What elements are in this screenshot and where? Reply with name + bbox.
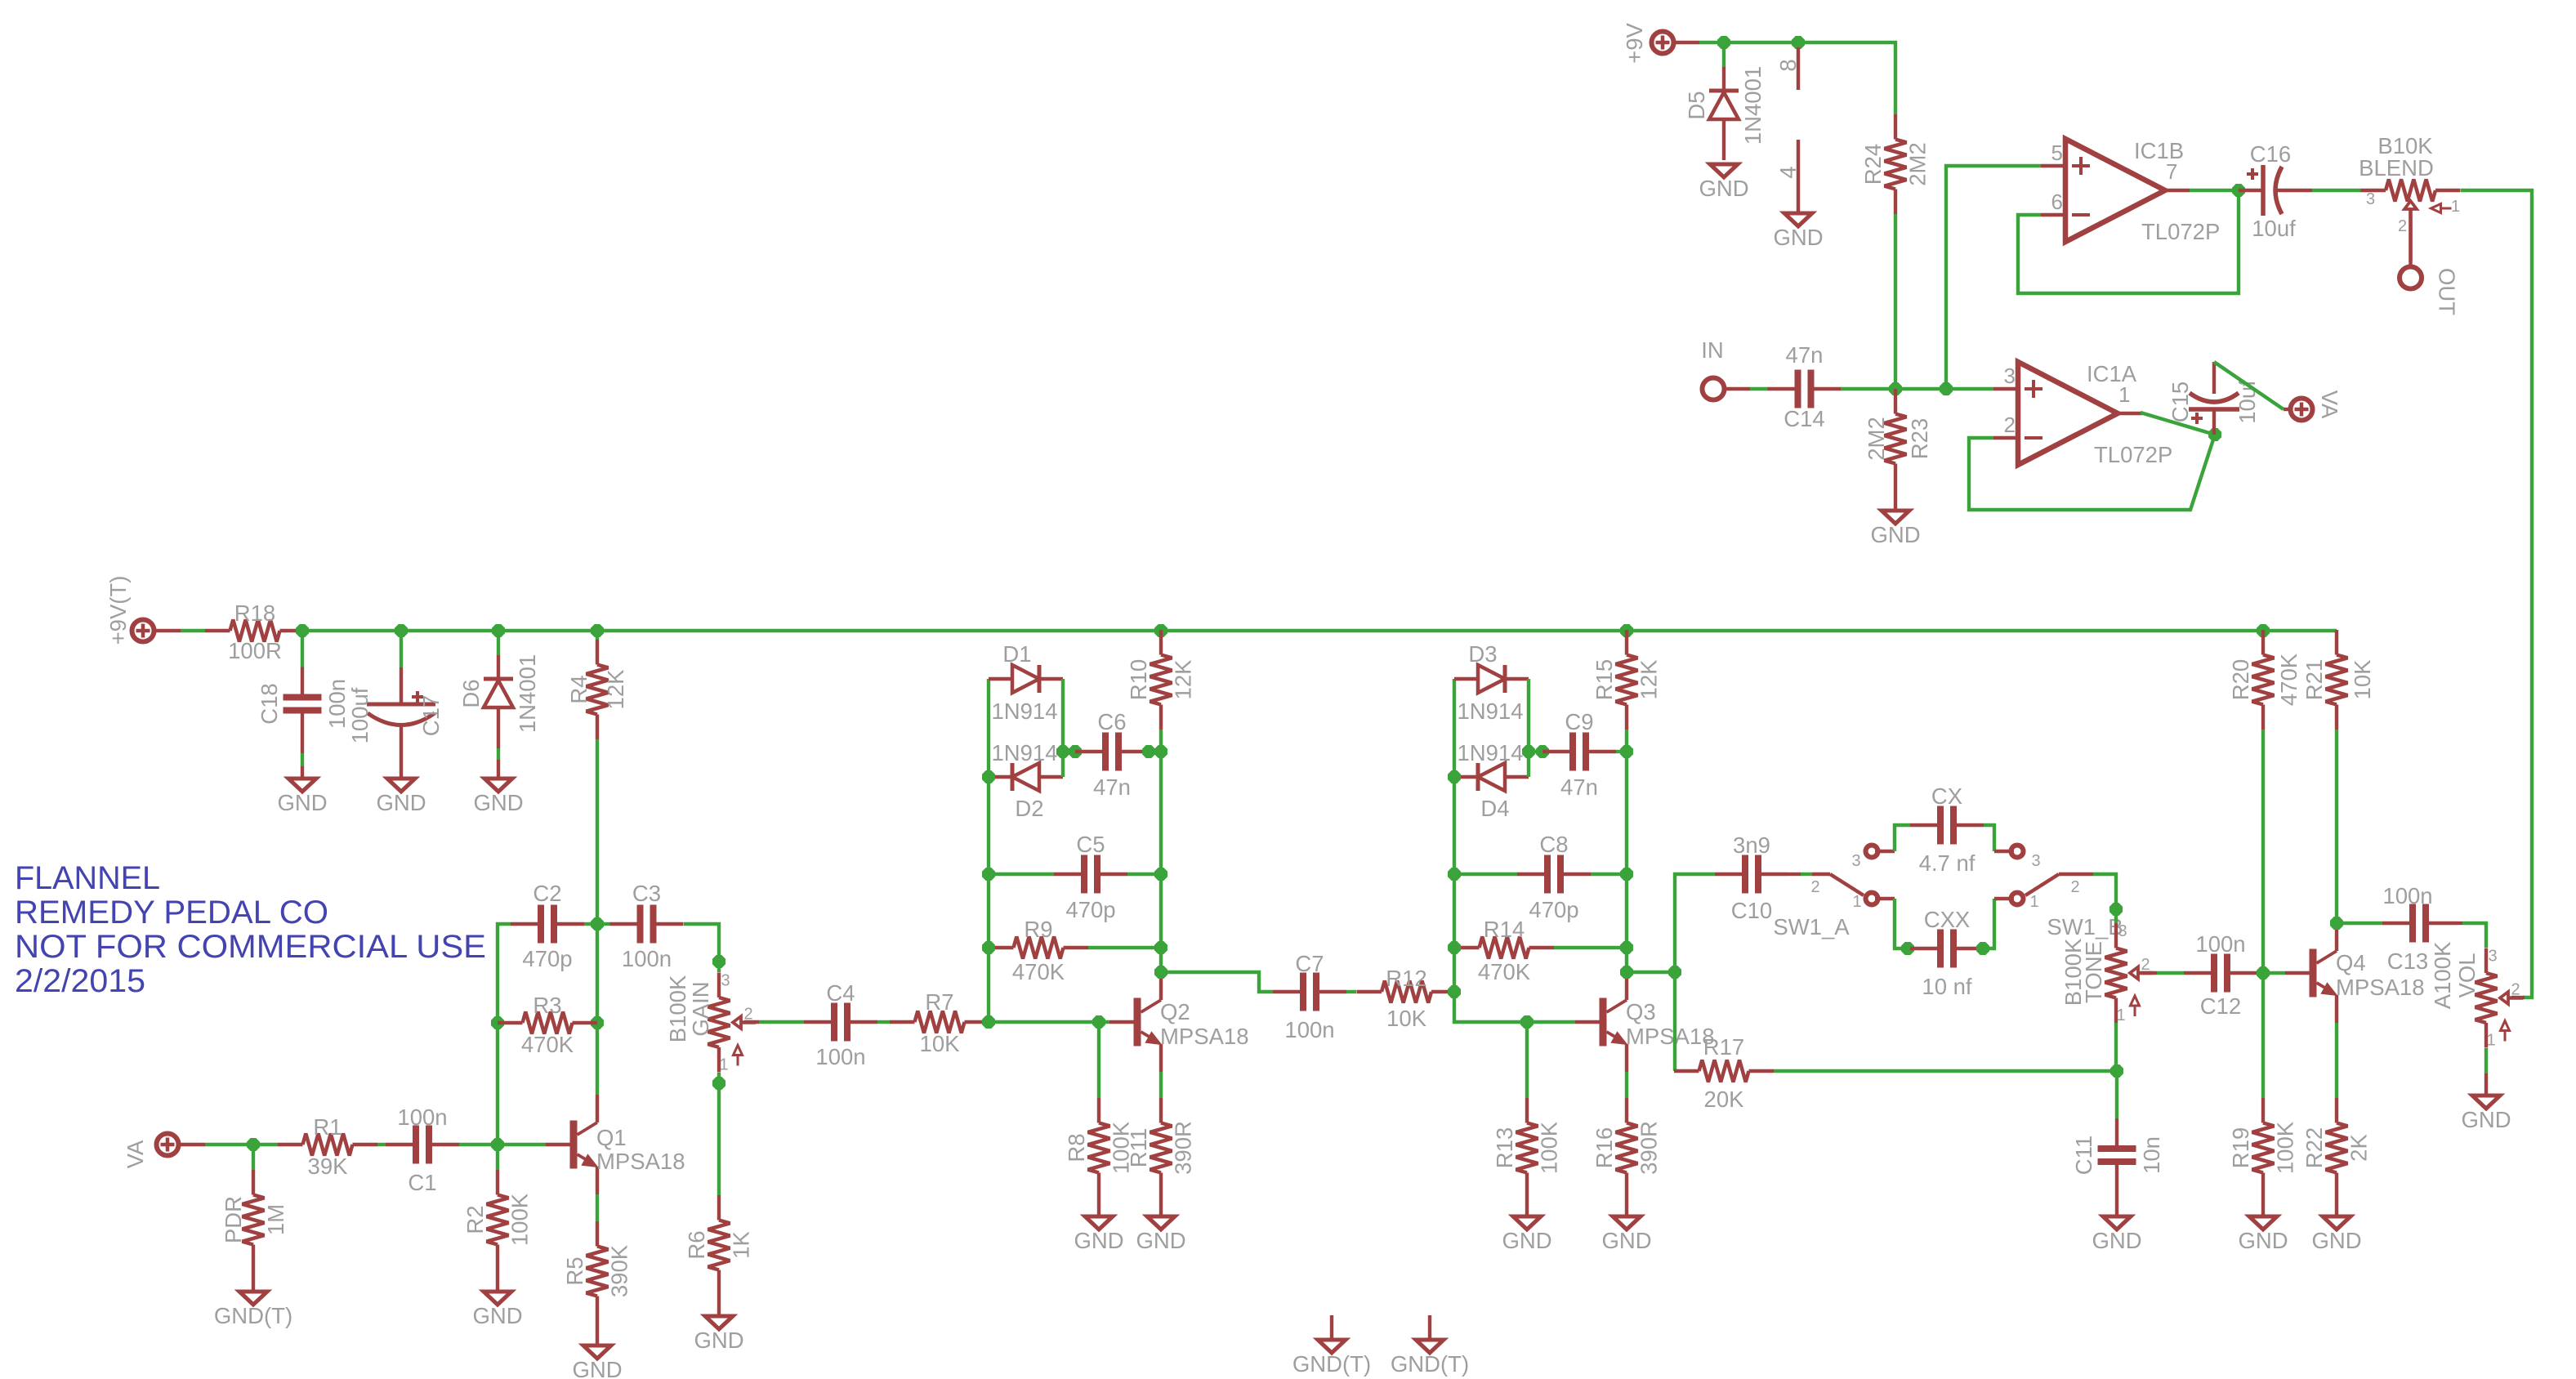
svg-text:C15: C15 [2168,382,2193,422]
title line NOT FOR COMMERCIAL USE [15,929,486,965]
svg-text:1K: 1K [729,1231,754,1259]
wire C3 to GAIN [684,924,719,972]
svg-text:2: 2 [2004,413,2016,437]
wire C15 to VA [2214,362,2288,409]
capacitor CX [1910,783,1984,876]
svg-text:2: 2 [2141,956,2150,974]
diode D2 [989,740,1063,821]
svg-text:D4: D4 [1480,796,1509,821]
ground GND below C11 [2092,1216,2141,1253]
wire R24 to input node [1894,214,1897,389]
junction C6 tap [1057,746,1069,758]
svg-text:R2: R2 [462,1205,488,1234]
wire C8 right [1591,872,1627,876]
capacitor C5 [1054,832,1127,922]
svg-text:100n: 100n [622,946,672,971]
junction C8 left [1449,868,1461,881]
svg-text:R3: R3 [533,993,561,1018]
wire CX to SW1_B pin3 [1984,825,2014,851]
svg-text:REMEDY PEDAL CO: REMEDY PEDAL CO [15,895,328,930]
svg-text:MPSA18: MPSA18 [596,1149,685,1174]
svg-text:470p: 470p [522,946,572,971]
wire C7 to R12 [1346,990,1356,993]
svg-text:3: 3 [2488,948,2497,966]
wire C11 to ground [2115,1192,2118,1216]
ground GND below R8 [1074,1216,1123,1253]
wire D6 to ground [497,760,500,779]
svg-text:GND: GND [1870,522,1920,547]
resistor R13 [1492,1098,1562,1216]
svg-text:R9: R9 [1024,917,1052,942]
svg-text:GND: GND [376,790,426,815]
svg-text:1: 1 [2116,1006,2125,1024]
resistor R22 [2301,1098,2372,1216]
wire TONE wiper to C12 [2141,971,2184,975]
power port +9V(T) [105,576,154,645]
svg-text:R1: R1 [313,1114,342,1140]
svg-text:5: 5 [2051,141,2063,165]
title line date [15,963,145,999]
capacitor C15 [2168,362,2260,435]
resistor R6 [684,1195,754,1316]
capacitor C14 [1768,342,1842,431]
junction C9 tap [1523,746,1535,758]
resistor R15 [1592,630,1662,730]
resistor R24 [1860,114,1931,214]
svg-text:3n9: 3n9 [1733,832,1770,858]
svg-text:1: 1 [2118,382,2130,407]
svg-text:10 nf: 10 nf [1922,974,1972,999]
wire C5 left [989,872,1054,876]
resistor R23 [1864,389,1932,511]
resistor R9 [989,917,1088,984]
wire SW1_B to TONE [2077,874,2116,923]
svg-text:R4: R4 [566,675,592,703]
wire R7 to Q2 base [989,1020,1109,1024]
capacitor C2 [511,881,584,971]
wire SW1_A pin3 to CX [1875,825,1910,851]
resistor R8 [1064,1098,1134,1216]
svg-text:TONE: TONE [2081,941,2106,1003]
svg-text:C7: C7 [1295,951,1324,976]
svg-text:R18: R18 [234,600,275,626]
svg-text:10K: 10K [920,1031,961,1056]
wire VA to R1 [181,1143,278,1146]
wire C18 to ground [301,741,304,779]
transistor Q2 [1109,972,1249,1072]
svg-text:470p: 470p [1529,897,1578,922]
svg-text:D1: D1 [1002,641,1031,667]
wire R8 stub [1097,1022,1100,1098]
port OUT [2400,267,2460,316]
resistor R14 [1454,917,1554,984]
svg-text:1M: 1M [263,1204,288,1235]
wire R9 right [1088,946,1161,949]
wire GAIN pin1 to R6 [717,1073,721,1195]
svg-text:Q3: Q3 [1626,999,1656,1024]
svg-text:C10: C10 [1731,898,1772,923]
junction rail C18 [297,625,309,637]
diode D5 [1684,66,1766,160]
resistor R16 [1592,1098,1662,1216]
pin number 3 [2004,364,2016,388]
wire C6 to R10 node [1149,750,1161,753]
junction C2 C3 [592,918,604,930]
junction tone bottom node [2111,1065,2123,1078]
svg-text:1: 1 [2029,893,2038,911]
ground GND below R2 [472,1292,522,1328]
pin number 1 [2118,382,2130,407]
svg-text:8: 8 [1775,59,1801,71]
svg-text:470K: 470K [1012,959,1065,984]
resistor PDR [221,1170,288,1292]
svg-text:3: 3 [2366,190,2375,208]
svg-text:R21: R21 [2301,659,2327,700]
wire R1 to C1 [377,1143,386,1146]
op-amp IC1A [1993,361,2172,467]
svg-text:4: 4 [1775,166,1801,178]
wire rail to D6 [497,631,500,655]
junction C9 left pin [1537,746,1549,758]
wire IC1A output diagonal [2141,413,2215,435]
junction Q1 base node [492,1139,504,1151]
ground GND below R5 [572,1346,622,1379]
svg-text:12K: 12K [603,669,628,710]
svg-text:1: 1 [719,1056,728,1074]
capacitor C3 [610,881,684,971]
svg-text:100n: 100n [2195,931,2245,957]
wire C12 to Q4 base [2257,971,2285,975]
svg-text:C11: C11 [2071,1136,2096,1175]
junction input node pin5 [1940,383,1953,395]
svg-text:3: 3 [1851,852,1860,870]
capacitor C4 [804,980,877,1069]
svg-text:R5: R5 [562,1256,587,1285]
wire rail to C17 [400,631,403,667]
svg-text:C1: C1 [408,1170,436,1195]
wire C5 right [1127,872,1161,876]
resistor R18 [205,600,305,663]
svg-text:CX: CX [1931,783,1962,809]
wire to C9 [1529,750,1542,753]
svg-text:7: 7 [2166,159,2177,184]
ground GND below D6 [473,779,523,815]
resistor R12 [1357,966,1457,1031]
svg-text:VOL: VOL [2454,953,2480,997]
capacitor C18 [257,667,350,741]
wire R15 to block [1625,730,1628,972]
wire to C6 [1063,750,1075,753]
svg-text:R15: R15 [1592,659,1617,700]
junction TONE top [2110,904,2123,916]
svg-text:100n: 100n [397,1105,447,1130]
svg-text:MPSA18: MPSA18 [2336,975,2425,1000]
diode D4 [1454,740,1529,821]
junction VA PDR [248,1139,260,1151]
wire D5 stub [1722,42,1726,67]
svg-text:Q2: Q2 [1160,999,1190,1024]
wire base node up [498,924,511,1145]
svg-text:GND: GND [572,1357,622,1379]
diode D3 [1454,641,1529,724]
svg-text:C2: C2 [533,881,561,906]
junction CXX left [1902,943,1914,955]
wire Q1 emitter to R5 [596,1194,599,1221]
svg-text:20K: 20K [1704,1087,1745,1112]
svg-text:C9: C9 [1565,709,1593,734]
ground GND below C17 [376,779,426,815]
svg-text:1: 1 [2486,1032,2495,1050]
wire C17 to ground [400,762,403,779]
svg-text:GND: GND [2461,1107,2511,1132]
junction C10 R17 node [1669,966,1681,979]
svg-text:R12: R12 [1386,966,1426,991]
title line FLANNEL [15,860,160,896]
wire +9V(T) to R18 [156,629,205,632]
resistor R7 [890,989,989,1056]
resistor R20 [2228,630,2301,730]
svg-text:2: 2 [2070,878,2079,896]
transistor Q1 [546,1095,685,1194]
wire IC1B output [2190,189,2239,192]
wire block3 right vertical [1527,679,1530,777]
svg-text:390R: 390R [1171,1121,1196,1175]
potentiometer VOL A100K [2430,941,2523,1049]
svg-text:D3: D3 [1468,641,1497,667]
wire BLEND to OUT [2409,209,2412,265]
junction Q3 collector [1621,966,1633,979]
wire IC1A feedback loop [1969,435,2215,510]
svg-text:D6: D6 [458,679,484,707]
svg-text:3: 3 [2004,364,2016,388]
svg-text:10n: 10n [2139,1136,2164,1174]
junction C12 R20 R19 [2257,967,2270,980]
capacitor C12 [2184,931,2257,1019]
svg-text:MPSA18: MPSA18 [1626,1024,1715,1049]
svg-text:TL072P: TL072P [2094,442,2172,467]
svg-text:GND(T): GND(T) [1391,1351,1469,1377]
junction rail R15 [1621,625,1633,637]
pin number 5 [2051,141,2063,165]
resistor R11 [1126,1098,1196,1216]
ground GND below R16 [1601,1216,1651,1253]
svg-text:2M2: 2M2 [1905,142,1931,186]
svg-text:R23: R23 [1907,418,1932,459]
resistor R17 [1674,1034,1774,1112]
svg-text:2M2: 2M2 [1864,417,1889,461]
wire PDR stub [252,1145,255,1170]
junction rail R10 [1155,625,1167,637]
junction GAIN bottom [713,1078,725,1090]
wire +9V to R24 [1676,42,1895,114]
junction C8 right [1621,868,1633,881]
svg-text:2K: 2K [2346,1134,2372,1162]
svg-text:GAIN: GAIN [688,981,713,1036]
junction rail D6 [493,625,505,637]
pin number 7 [2166,159,2177,184]
wire R20 down [2261,730,2265,973]
svg-text:1N914: 1N914 [991,698,1057,724]
svg-text:C6: C6 [1097,709,1126,734]
junction R3 left [492,1017,504,1029]
svg-text:R11: R11 [1126,1128,1151,1167]
wire Q2 emitter [1159,1072,1163,1098]
wire C9 to R15 node [1616,750,1627,753]
svg-text:GND: GND [1074,1228,1123,1253]
diode D1 [989,641,1063,724]
ground GND below VOL [2461,1096,2511,1132]
svg-text:C13: C13 [2387,948,2428,974]
capacitor C6 [1075,709,1149,800]
capacitor C11 [2071,1118,2164,1192]
wire GAIN wiper to C4 [744,1020,804,1024]
resistor R2 [462,1170,533,1292]
svg-text:GND: GND [1699,176,1748,201]
ground GND(T) below PDR [214,1292,292,1328]
svg-text:10K: 10K [2350,659,2375,700]
wire C14 to IC1A pin3 [1841,387,1993,390]
junction R15 bottom [1621,746,1633,758]
junction +9V at D5 [1718,37,1730,49]
wire R10 to block [1159,730,1163,972]
junction D4 left [1449,771,1461,783]
diode D6 [458,654,540,760]
ground GND below R6 [694,1316,743,1353]
wire block3 left vertical [1454,679,1575,1022]
wire R14 right [1554,946,1627,949]
junction D2 left [983,771,995,783]
svg-text:R16: R16 [1592,1127,1617,1168]
potentiometer BLEND B10K [2359,133,2460,262]
svg-text:VA: VA [123,1140,148,1168]
junction Q2 collector [1155,966,1167,979]
svg-text:1N914: 1N914 [1457,698,1523,724]
wire C4 to R7 [877,1020,890,1024]
ground GND below D5 [1699,164,1748,201]
svg-text:10K: 10K [1386,1006,1427,1031]
title line REMEDY PEDAL CO [15,895,328,930]
wire to C11 [2115,1071,2118,1118]
junction R9 right [1155,942,1167,954]
junction Q4 collector [2331,917,2343,930]
svg-text:GND: GND [2092,1228,2141,1253]
wire C8 left [1454,872,1517,876]
svg-text:VA: VA [2317,390,2342,419]
switch SW1_B [2011,846,2123,940]
wire C10 to SW1_A [1788,872,1812,876]
potentiometer TONE B100K [2060,922,2153,1024]
capacitor C9 [1542,709,1616,800]
junction C5 right [1155,868,1167,881]
svg-text:R17: R17 [1703,1034,1744,1060]
wire IC1B feedback loop [2018,190,2239,293]
svg-text:R6: R6 [684,1230,709,1259]
svg-text:470K: 470K [521,1032,574,1057]
junction D-block2 base [983,1016,995,1029]
wire R17 to tone node [1774,1069,2117,1073]
svg-text:3: 3 [721,972,730,990]
svg-text:R22: R22 [2301,1127,2327,1168]
svg-text:1: 1 [1852,893,1861,911]
svg-text:Q4: Q4 [2336,950,2366,975]
wire C1 to Q1 base [459,1143,546,1146]
svg-text:GND: GND [1502,1228,1551,1253]
svg-text:GND: GND [1601,1228,1651,1253]
port IN [1701,337,1724,400]
transistor Q4 [2285,923,2425,1023]
wire VOL to ground [2484,1073,2488,1096]
capacitor C8 [1517,832,1591,922]
junction Q3 base R13 [1521,1016,1534,1029]
capacitor C1 [386,1105,459,1195]
svg-text:2: 2 [1810,878,1819,896]
junction GAIN top [713,956,725,968]
wire rail to C18 [301,631,304,667]
svg-text:4.7 nf: 4.7 nf [1919,850,1976,876]
ground GND below R13 [1502,1216,1551,1253]
wire +9V(T) rail [305,629,2337,632]
wire Q2 collector to C7 [1161,972,1273,992]
wire R2 stub [496,1145,499,1170]
svg-text:R19: R19 [2228,1127,2253,1168]
wire SW1_A pin1 to CXX [1875,899,1910,948]
wire R19 stub [2261,973,2265,1098]
svg-text:GND: GND [2311,1228,2361,1253]
wire IC1B pin5 net [1946,166,2041,389]
svg-text:100uf: 100uf [347,687,373,743]
wire C3 left [597,922,610,926]
pin number 6 [2051,190,2063,214]
junction input node R23 [1890,383,1902,395]
svg-text:TL072P: TL072P [2141,219,2220,244]
svg-text:GND: GND [277,790,327,815]
wire rail to R4 [596,631,599,640]
svg-text:GND: GND [472,1303,522,1328]
svg-text:470K: 470K [1478,959,1531,984]
ground GND(T) float 1 [1292,1315,1371,1377]
svg-text:GND(T): GND(T) [1292,1351,1371,1377]
svg-text:+9V: +9V [1622,22,1647,63]
wire CXX to SW1_B pin1 [1984,899,2014,948]
svg-text:BLEND: BLEND [2359,155,2434,181]
resistor R21 [2301,630,2375,730]
port VA output [2291,390,2343,421]
svg-text:1: 1 [2451,198,2460,216]
svg-text:47n: 47n [1786,342,1824,368]
svg-text:100n: 100n [815,1044,865,1069]
resistor R10 [1126,630,1196,730]
junction C15 node [2209,429,2221,441]
ground GND below pin 4 [1773,213,1823,250]
svg-text:R8: R8 [1064,1133,1089,1162]
capacitor C17 [347,667,444,762]
switch SW1_A [1773,846,1877,940]
junction R12 right [1449,986,1461,998]
svg-text:FLANNEL: FLANNEL [15,860,160,896]
svg-text:2: 2 [2398,217,2407,235]
svg-text:R24: R24 [1860,144,1886,185]
svg-text:GND: GND [473,790,523,815]
svg-text:MPSA18: MPSA18 [1160,1024,1249,1049]
ground GND below R23 [1870,511,1920,547]
junction +9V at pin8 [1792,37,1805,49]
svg-text:R13: R13 [1492,1127,1517,1168]
svg-text:R7: R7 [925,989,953,1015]
transistor Q3 [1575,972,1715,1072]
capacitor C16 [2239,141,2361,241]
junction rail R4 [592,625,604,637]
ground GND below R11 [1136,1216,1185,1253]
